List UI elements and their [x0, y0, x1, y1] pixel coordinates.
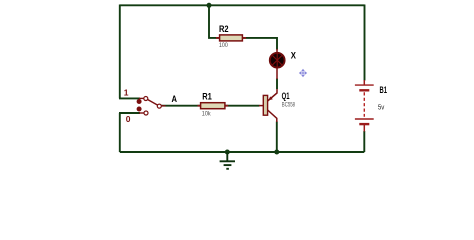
battery bottom pin	[363, 124, 365, 131]
throw 0 pin	[139, 112, 144, 114]
pole contact circle	[157, 104, 161, 108]
wire battery top	[364, 5, 366, 81]
wire bottom rail	[120, 151, 364, 153]
lamp top pin	[276, 49, 278, 53]
node junction top rail	[207, 3, 212, 8]
battery B1	[355, 80, 387, 132]
wire switch pole to R1	[161, 105, 200, 107]
wire stub to switch throw 1	[119, 97, 140, 99]
emitter arrow	[269, 96, 273, 100]
svg-text:10k: 10k	[202, 110, 212, 117]
svg-text:A: A	[172, 94, 178, 104]
lamp X	[270, 49, 296, 79]
node junction ground	[225, 150, 230, 155]
cell 2 short plate	[359, 123, 369, 125]
ground	[220, 152, 235, 169]
svg-text:Q1: Q1	[282, 91, 290, 101]
wire left rail lower	[119, 113, 121, 152]
wire battery bottom	[363, 131, 365, 152]
transistor Q1	[259, 89, 295, 122]
move cursor icon	[299, 69, 307, 77]
cell 1 long plate	[355, 84, 374, 86]
lamp body	[270, 53, 285, 68]
pole pin	[161, 105, 165, 107]
svg-text:1: 1	[124, 87, 129, 97]
lamp filament cross	[272, 53, 282, 67]
transistor body bar	[263, 95, 267, 115]
wire left rail upper	[119, 5, 121, 99]
collector lead	[268, 110, 277, 122]
svg-text:100: 100	[219, 42, 228, 49]
throw 1 pin	[139, 97, 144, 99]
throw 0 contact circle	[144, 111, 148, 115]
svg-text:R1: R1	[202, 92, 212, 102]
cell 2 long plate	[355, 118, 374, 120]
emitter lead	[268, 89, 277, 101]
svg-text:R2: R2	[219, 24, 229, 34]
svg-text:5v: 5v	[378, 103, 385, 112]
svg-text:X: X	[291, 50, 296, 60]
switch lever	[148, 100, 158, 106]
cell 1 short plate	[359, 89, 369, 91]
switch SW-SPDT	[124, 87, 166, 124]
throw 1 contact circle	[144, 97, 148, 101]
node junction collector	[274, 150, 279, 155]
wire R1 to Q1 base	[225, 105, 260, 107]
toggle marker dot lower	[137, 107, 142, 112]
wire Q1 collector to bottom rail	[276, 122, 278, 153]
resistor R1	[198, 92, 229, 118]
wire stub to switch throw 0	[119, 112, 140, 114]
svg-text:0: 0	[126, 114, 131, 124]
wire R2 to lamp	[242, 38, 277, 50]
battery top pin	[363, 80, 365, 85]
battery dashed link	[363, 92, 365, 117]
base pin	[259, 105, 263, 107]
wire top rail	[120, 4, 365, 6]
wire R2 branch from top rail	[209, 5, 220, 38]
resistor R2	[216, 24, 246, 49]
svg-text:B1: B1	[380, 85, 388, 95]
svg-text:BC558: BC558	[282, 102, 296, 109]
lamp bottom pin	[276, 68, 278, 80]
wire lamp to Q1 emitter	[276, 79, 278, 90]
toggle marker dot upper	[137, 99, 142, 104]
